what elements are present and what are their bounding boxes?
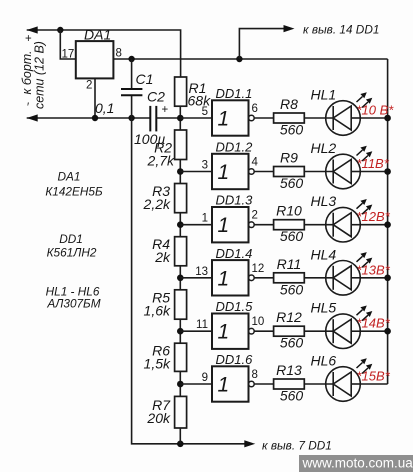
op-amp U DA1 box — [76, 41, 114, 78]
resistor R9 — [274, 167, 305, 177]
svg-text:6: 6 — [252, 103, 258, 115]
svg-text:1: 1 — [218, 267, 230, 290]
svg-text:3: 3 — [202, 160, 208, 172]
svg-text:8: 8 — [116, 48, 122, 60]
inverter DD1.5 — [212, 314, 249, 349]
svg-text:560: 560 — [280, 388, 304, 404]
svg-text:DD1.2: DD1.2 — [216, 140, 254, 155]
svg-text:560: 560 — [280, 175, 304, 191]
node R7 bottom — [177, 441, 184, 448]
wire DA1 pin8 output rail — [113, 58, 387, 60]
svg-text:R13: R13 — [276, 362, 302, 378]
wire HL3 to rail — [360, 224, 387, 226]
wire DD1.1 output — [254, 117, 273, 119]
svg-text:1: 1 — [218, 108, 230, 131]
svg-text:DD1.3: DD1.3 — [216, 193, 254, 208]
svg-text:4: 4 — [252, 157, 259, 169]
svg-text:2k: 2k — [154, 249, 171, 265]
resistor R1 — [175, 77, 187, 106]
svg-text:R10: R10 — [276, 203, 302, 219]
wire R12 to HL5 — [304, 330, 333, 332]
svg-text:HL6: HL6 — [311, 353, 337, 369]
svg-text:8: 8 — [252, 369, 258, 381]
svg-text:АЛ307БМ: АЛ307БМ — [46, 297, 100, 311]
node rail row 1 — [384, 115, 391, 122]
wire tap to DD1.4 input — [180, 277, 212, 279]
svg-text:DD1.4: DD1.4 — [216, 246, 253, 261]
wire HL5 to rail — [360, 330, 387, 332]
svg-text:1: 1 — [202, 213, 208, 225]
node divider tap 6 — [177, 381, 184, 388]
wire HL4 to rail — [360, 277, 387, 279]
node rail row 2 — [384, 168, 391, 175]
svg-text:2,2k: 2,2k — [143, 196, 171, 212]
svg-text:DA1: DA1 — [58, 170, 81, 184]
node rail row 4 — [384, 275, 391, 282]
inverter DD1.1 — [212, 100, 249, 135]
LED HL6 — [326, 367, 361, 402]
watermark — [299, 455, 413, 472]
node divider tap 4 — [177, 275, 184, 282]
svg-text:HL4: HL4 — [311, 246, 337, 262]
svg-text:www.moto.com.ua: www.moto.com.ua — [302, 456, 413, 471]
svg-text:DD1.1: DD1.1 — [216, 86, 253, 101]
inverter DD1.4 — [212, 260, 249, 295]
inverter DD1.2 — [212, 154, 249, 189]
svg-text:560: 560 — [280, 228, 304, 244]
svg-text:1: 1 — [218, 321, 230, 344]
svg-text:1,5k: 1,5k — [144, 355, 171, 371]
svg-text:2: 2 — [252, 210, 258, 222]
LED arrows HL5 — [357, 310, 369, 321]
svg-text:*14В*: *14В* — [357, 316, 391, 331]
LED HL3 — [326, 207, 361, 242]
svg-text:R11: R11 — [277, 256, 302, 272]
resistor R5 — [175, 290, 187, 319]
svg-text:*11В*: *11В* — [357, 156, 390, 171]
LED HL5 — [326, 314, 361, 349]
svg-text:R8: R8 — [280, 96, 298, 112]
wire HL1 to rail — [360, 117, 387, 119]
svg-text:1,6k: 1,6k — [144, 303, 171, 319]
wire ground down rail — [132, 118, 245, 444]
inversion bubble DD1.2 — [249, 169, 255, 175]
LED HL4 — [326, 261, 361, 296]
svg-text:10: 10 — [252, 316, 265, 328]
LED HL1 — [326, 101, 361, 136]
svg-text:HL3: HL3 — [311, 193, 337, 209]
node divider tap 1 — [177, 115, 184, 122]
svg-text:DD1: DD1 — [59, 232, 83, 246]
inversion bubble DD1.1 — [249, 115, 255, 121]
resistor R8 — [274, 113, 305, 123]
node C1/ground — [128, 115, 134, 121]
inverter DD1.6 — [212, 366, 249, 401]
svg-text:HL2: HL2 — [311, 140, 337, 156]
wire DD1.4 output — [254, 277, 273, 279]
arrow к выв. 7 — [244, 440, 255, 447]
svg-text:+: + — [162, 104, 169, 116]
wire R10 to HL3 — [304, 224, 333, 226]
inversion bubble DD1.5 — [249, 328, 255, 334]
svg-text:*12В*: *12В* — [357, 209, 391, 224]
svg-text:2: 2 — [86, 80, 92, 92]
wire DD1.2 output — [254, 171, 273, 173]
LED arrows HL6 — [357, 363, 369, 374]
svg-text:+: + — [25, 33, 32, 45]
svg-text:2,7k: 2,7k — [147, 152, 175, 168]
svg-text:0,1: 0,1 — [95, 100, 114, 116]
wire DA1 pin17 branch — [60, 30, 76, 59]
resistor R6 — [175, 343, 187, 371]
node divider tap 5 — [177, 328, 184, 335]
svg-text:1: 1 — [218, 374, 230, 397]
resistor R10 — [274, 220, 305, 230]
svg-text:DD1.5: DD1.5 — [216, 299, 254, 314]
svg-text:К561ЛН2: К561ЛН2 — [47, 246, 97, 260]
LED arrows HL1 — [357, 97, 369, 108]
wire R11 to HL4 — [304, 277, 333, 279]
resistor R12 — [274, 326, 305, 336]
node top junction — [57, 27, 63, 33]
LED arrows HL3 — [357, 203, 369, 214]
LED arrows HL2 — [357, 150, 369, 161]
svg-text:R12: R12 — [276, 309, 302, 325]
svg-text:DA1: DA1 — [84, 27, 111, 43]
inversion bubble DD1.6 — [249, 381, 255, 387]
node rail row 3 — [384, 221, 391, 228]
node divider tap 3 — [177, 221, 184, 228]
wire tap to DD1.5 input — [180, 330, 212, 332]
wire +12V top rail — [27, 30, 181, 77]
svg-text:DD1.6: DD1.6 — [216, 352, 254, 367]
wire DD1.6 output — [254, 383, 273, 385]
node rail row 5 — [384, 328, 391, 335]
svg-text:к выв. 14 DD1: к выв. 14 DD1 — [303, 23, 379, 37]
svg-text:HL1: HL1 — [311, 87, 337, 103]
wire DD1.5 output — [254, 330, 273, 332]
LED HL2 — [326, 154, 361, 189]
svg-text:К142ЕН5Б: К142ЕН5Б — [45, 185, 103, 199]
wire DA1 pin2 down — [94, 78, 96, 118]
resistor R4 — [175, 237, 187, 266]
inverter DD1.3 — [212, 207, 249, 242]
wire C2 to node — [156, 117, 180, 119]
arrow supply + — [27, 26, 38, 33]
svg-text:13: 13 — [195, 266, 208, 278]
wire tap to DD1.3 input — [180, 224, 212, 226]
wire HL6 to rail — [360, 383, 387, 385]
wire pin14 branch — [239, 29, 283, 59]
resistor R2 — [175, 130, 187, 160]
wire DD1.3 output — [254, 224, 273, 226]
svg-text:12: 12 — [252, 263, 265, 275]
svg-text:C1: C1 — [136, 71, 154, 87]
node divider tap 2 — [177, 168, 184, 175]
svg-text:20k: 20k — [146, 410, 171, 426]
svg-text:9: 9 — [202, 372, 208, 384]
wire R13 to HL6 — [304, 383, 333, 385]
capacitor C2 — [149, 106, 151, 131]
svg-text:17: 17 — [62, 49, 75, 61]
wire tap to DD1.1 input — [180, 117, 212, 119]
svg-text:C2: C2 — [147, 89, 165, 105]
wire tap to DD1.2 input — [180, 171, 212, 173]
wire R9 to HL2 — [304, 171, 333, 173]
LED arrows HL4 — [357, 256, 369, 267]
inversion bubble DD1.4 — [249, 275, 255, 281]
svg-text:к выв. 7 DD1: к выв. 7 DD1 — [262, 439, 332, 453]
resistor R11 — [274, 273, 305, 283]
wire HL2 to rail — [360, 171, 387, 173]
inversion bubble DD1.3 — [249, 222, 255, 228]
resistor R3 — [175, 184, 187, 213]
wire R7 to bottom rail — [179, 428, 181, 444]
svg-text:1: 1 — [218, 214, 230, 237]
svg-text:11: 11 — [196, 319, 208, 331]
svg-text:R9: R9 — [280, 150, 298, 166]
wire +5V right rail — [387, 59, 389, 384]
node pin14 branch — [236, 56, 242, 62]
svg-text:560: 560 — [280, 122, 304, 138]
svg-text:1: 1 — [218, 161, 230, 184]
svg-text:560: 560 — [280, 281, 304, 297]
resistor R7 — [175, 396, 187, 428]
svg-text:′: ′ — [27, 102, 29, 114]
node C1 top — [128, 56, 134, 62]
resistor R13 — [274, 379, 305, 389]
svg-text:сети (12 В): сети (12 В) — [33, 41, 47, 109]
wire tap to DD1.6 input — [180, 383, 212, 385]
capacitor C1 — [131, 59, 133, 88]
svg-text:5: 5 — [202, 106, 208, 118]
arrow supply - — [27, 114, 38, 121]
node pin2/ground — [92, 115, 98, 121]
wire R8 to HL1 — [304, 117, 333, 119]
svg-text:*13В*: *13В* — [357, 262, 391, 277]
svg-text:*15В*: *15В* — [357, 369, 391, 384]
svg-text:560: 560 — [280, 335, 304, 351]
svg-text:HL5: HL5 — [311, 300, 337, 316]
wire ground rail left — [27, 117, 150, 119]
